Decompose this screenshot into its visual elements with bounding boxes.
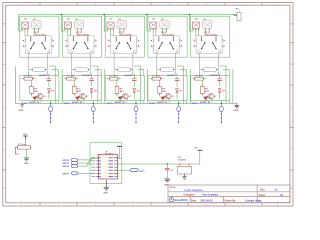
junction on +5V rail (col 5 drop) <box>189 14 191 16</box>
svg-text:Drawn By:: Drawn By: <box>225 200 237 202</box>
junction dot <box>167 163 168 164</box>
top supply rail wire <box>19 14 237 16</box>
ground symbol at bus right <box>234 103 239 108</box>
connector P? top right body <box>237 12 241 20</box>
regulator U? body <box>178 166 192 174</box>
relay block column 2 <box>61 15 104 124</box>
svg-text:GND: GND <box>19 110 24 112</box>
net port flag OUTPUT <box>131 169 139 172</box>
border row letters <box>4 23 293 191</box>
svg-text:Date:: Date: <box>191 199 197 202</box>
svg-text:GPIO2: GPIO2 <box>63 160 70 162</box>
inner border frame <box>6 5 290 203</box>
IC pin names left <box>96 158 100 177</box>
svg-text:GND: GND <box>103 193 108 195</box>
svg-text:Input Selector: Input Selector <box>185 188 204 192</box>
relay block column 3 <box>104 15 147 124</box>
svg-text:GPIO4: GPIO4 <box>63 165 70 168</box>
capacitor C? at regulator <box>166 164 168 168</box>
junction on +5V rail (col 4 drop) <box>146 14 148 16</box>
ground symbol at bus left <box>20 105 24 108</box>
ground symbol below fuse <box>24 158 29 161</box>
IC pin stubs right <box>114 158 118 177</box>
outer border frame <box>3 3 293 207</box>
fuse F? body <box>18 146 31 150</box>
svg-text:OUT?: OUT? <box>139 171 145 173</box>
IC section outer green box <box>90 143 122 184</box>
svg-text:Company:: Company: <box>184 194 195 196</box>
ground bus wire <box>16 67 237 104</box>
IC U? body <box>98 154 117 179</box>
title block row lines <box>168 192 290 197</box>
relay block column 5 <box>190 15 233 124</box>
border column numbers <box>20 4 279 207</box>
relay block column 4 <box>147 15 190 124</box>
junction on +5V rail (col 2 drop) <box>61 14 63 16</box>
svg-text:Rev:: Rev: <box>260 189 265 191</box>
wire IC right pin to output flag <box>118 169 130 171</box>
svg-text:GND: GND <box>24 163 29 165</box>
svg-text:TITLE:: TITLE: <box>169 187 176 189</box>
svg-text:GPIO3: GPIO3 <box>63 163 70 165</box>
wire fuse to ground <box>26 149 28 158</box>
relay block column 1 <box>19 15 62 124</box>
ground below capacitor <box>164 179 170 182</box>
IC pin stubs left <box>92 158 96 177</box>
svg-text:EasyEDA: EasyEDA <box>175 198 189 202</box>
border tick marks top/bottom <box>40 3 262 6</box>
wire to fuse <box>25 139 27 145</box>
ground below IC <box>103 180 109 190</box>
power bar right <box>197 149 202 151</box>
IC pin names right <box>109 158 113 177</box>
IC section divider line <box>90 157 122 159</box>
svg-text:GND: GND <box>234 110 239 112</box>
svg-text:GPIO?: GPIO? <box>63 173 70 175</box>
svg-text:2021-09-10: 2021-09-10 <box>201 200 213 202</box>
svg-text:+5V: +5V <box>194 148 198 150</box>
title block column lines <box>190 185 257 203</box>
EasyEDA logo <box>169 198 173 202</box>
svg-text:XC6206: XC6206 <box>178 159 186 161</box>
svg-text:Csongor Varga: Csongor Varga <box>245 200 262 202</box>
svg-text:Your Company: Your Company <box>202 194 219 196</box>
border tick marks left/right <box>3 43 6 171</box>
svg-text:Sheet:: Sheet: <box>259 194 266 197</box>
VCC power bar above IC <box>117 145 122 148</box>
long wire IC to regulator rail <box>118 151 200 165</box>
title block outline <box>168 185 290 203</box>
junction on +5V rail (col 3 drop) <box>103 14 105 16</box>
